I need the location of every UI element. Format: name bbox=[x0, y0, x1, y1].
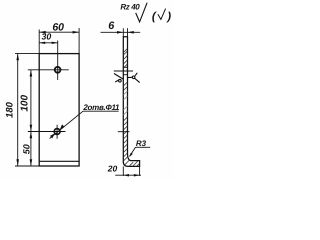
svg-text:(: ( bbox=[152, 11, 157, 23]
svg-text:30: 30 bbox=[42, 32, 52, 42]
svg-text:Rz 40: Rz 40 bbox=[120, 2, 140, 11]
leader arrow below hole H2 bbox=[50, 134, 55, 139]
hole H2 center line horizontal (with 50-dim extension) bbox=[28, 131, 66, 133]
roughness symbol in parentheses bbox=[158, 9, 166, 20]
hole H1 upper: circle bbox=[55, 67, 61, 73]
lower hole center line tick in side view bbox=[118, 131, 130, 133]
roughness mark on hole right wall bbox=[128, 73, 140, 83]
dimension 30: dim line bbox=[39, 42, 58, 44]
roughness symbol under Rz40 bbox=[136, 3, 147, 22]
svg-text:50: 50 bbox=[21, 144, 31, 154]
dimension 6: dim line with tails bbox=[101, 31, 141, 33]
svg-text:180: 180 bbox=[5, 101, 16, 118]
dimension 180: dim line bbox=[17, 54, 19, 166]
svg-text:60: 60 bbox=[52, 22, 64, 34]
dimension 60: extension lines bbox=[38, 30, 40, 54]
R3 leader shelf bbox=[136, 146, 151, 148]
dimension 20: extension lines bbox=[122, 166, 124, 176]
dimension 100/50: dim line bbox=[30, 70, 32, 166]
svg-text:100: 100 bbox=[20, 95, 31, 112]
dimension 50: arrows bbox=[30, 132, 33, 139]
dimension 6: arrows pointing inward bbox=[117, 31, 123, 34]
bend line (front view) bbox=[39, 160, 79, 162]
leader for hole callout: shelf bbox=[83, 110, 119, 112]
dimension 60: dim line bbox=[39, 31, 79, 33]
top extension line at plate top bbox=[15, 53, 39, 55]
dimension 20: arrows bbox=[123, 174, 129, 177]
dimension 100: arrows bbox=[30, 70, 33, 77]
hole H1 center line horizontal (with 100-dim extension) bbox=[28, 69, 69, 71]
svg-text:R3: R3 bbox=[136, 139, 147, 148]
svg-text:2отв.Ф11: 2отв.Ф11 bbox=[82, 103, 120, 112]
dimension 6: extension lines above side view bbox=[122, 28, 124, 36]
roughness mark on hole left wall bbox=[114, 74, 123, 83]
hole H2 lower: circle bbox=[54, 129, 60, 135]
side view L-profile outline bbox=[123, 37, 139, 167]
leader diagonal to hole H2 (passes through hole) bbox=[50, 111, 83, 138]
dimension 30: arrows bbox=[39, 42, 45, 44]
hole center line in side view bbox=[114, 70, 133, 72]
dimension 20: dim line bbox=[115, 174, 141, 176]
dimension 60: arrows bbox=[39, 31, 46, 34]
R3 leader line with arrow bbox=[130, 147, 136, 156]
side view hatching bbox=[123, 48, 140, 166]
bottom extension line at plate bottom bbox=[15, 165, 39, 167]
svg-text:): ) bbox=[165, 11, 171, 23]
svg-text:6: 6 bbox=[108, 20, 115, 32]
hole H1 center line vertical (with 30-dim extension) bbox=[57, 41, 59, 81]
dimension 180: arrows bbox=[16, 54, 19, 61]
svg-text:20: 20 bbox=[107, 164, 118, 174]
hole section edge ticks (side view) bbox=[123, 66, 127, 68]
front view plate outline bbox=[39, 54, 79, 166]
hole H2 center line vertical bbox=[56, 125, 58, 139]
